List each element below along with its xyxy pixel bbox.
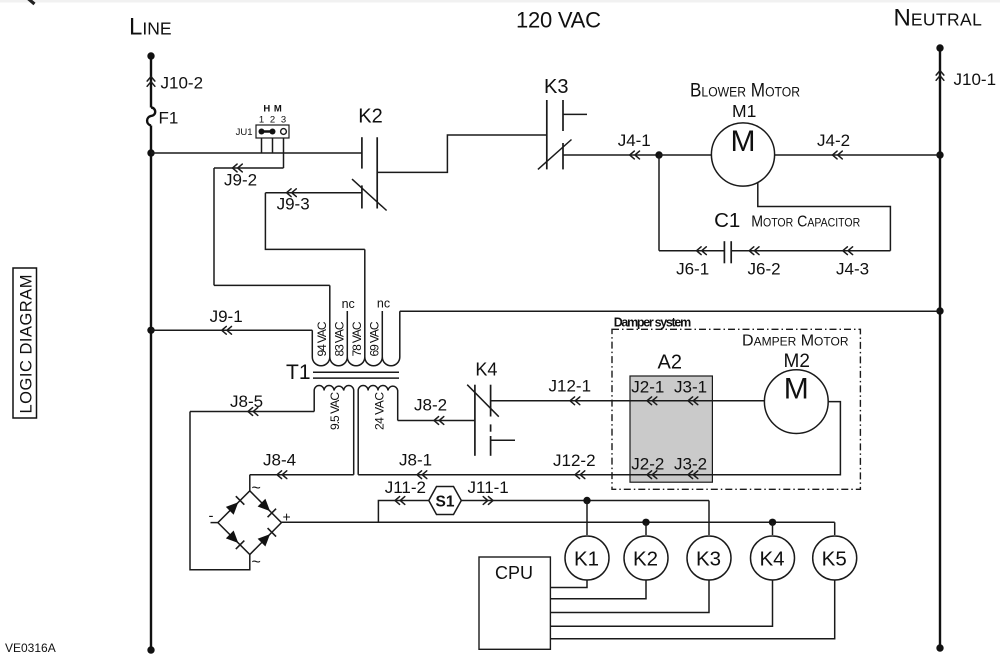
transformer T1 secondary 9.5 VAC (314, 386, 354, 475)
svg-text:J4-2: J4-2 (817, 131, 850, 150)
svg-text:J4-3: J4-3 (836, 260, 869, 279)
svg-text:K3: K3 (696, 548, 721, 571)
svg-text:J8-4: J8-4 (263, 451, 296, 470)
wire K1 to CPU (550, 580, 587, 588)
wire K3 to J4-1 (563, 154, 659, 156)
connector J4-3 (843, 247, 853, 255)
terminal board A2 fill (630, 376, 712, 482)
svg-text:J12-2: J12-2 (553, 451, 596, 470)
wire K4 to CPU (550, 580, 772, 626)
connector J12-2 (575, 471, 585, 479)
wire J4-1 to capacitor (658, 155, 660, 251)
relay coil K4 (751, 536, 795, 580)
svg-text:J3-1: J3-1 (674, 378, 707, 397)
svg-text:K3: K3 (544, 76, 568, 98)
wire J9-2 (214, 167, 284, 169)
svg-text:24 VAC: 24 VAC (373, 392, 387, 430)
svg-text:1: 1 (259, 115, 264, 126)
svg-text:BLOWER MOTOR: BLOWER MOTOR (690, 81, 800, 102)
wire to motor (659, 154, 712, 156)
connector J10-1 (936, 71, 944, 81)
wire J12-2 to M2 (630, 402, 840, 475)
svg-text:J8-5: J8-5 (230, 392, 263, 411)
wire J9-3 (265, 192, 362, 194)
svg-text:J9-3: J9-3 (277, 195, 310, 214)
JU1 pin drops (261, 138, 263, 153)
connector J6-2 (749, 247, 759, 255)
wire line bus to K2 (151, 152, 362, 154)
connector J2-1 (647, 397, 657, 405)
damper system box (612, 329, 860, 489)
relay coil K5 (813, 536, 857, 580)
connector J11-1 (483, 497, 493, 505)
svg-text:9.5 VAC: 9.5 VAC (328, 392, 342, 430)
wire K2 to CPU (550, 580, 646, 599)
svg-text:VE0316A: VE0316A (5, 641, 56, 655)
svg-text:120 VAC: 120 VAC (516, 7, 601, 32)
svg-text:J11-1: J11-1 (468, 478, 509, 497)
svg-text:J11-2: J11-2 (385, 478, 426, 497)
svg-text:69 VAC: 69 VAC (368, 321, 382, 356)
wire S1 to relays (461, 500, 709, 502)
svg-text:J2-2: J2-2 (631, 454, 664, 473)
svg-text:J10-1: J10-1 (954, 70, 997, 89)
svg-text:78 VAC: 78 VAC (350, 321, 364, 356)
svg-text:H: H (263, 104, 270, 115)
wire dc bus (+) (281, 521, 834, 523)
svg-text:CPU: CPU (495, 563, 533, 583)
svg-text:2: 2 (270, 115, 275, 126)
connector J2-2 (647, 471, 657, 479)
relay coil K2 (624, 536, 668, 580)
svg-text:C1: C1 (714, 209, 740, 232)
svg-text:J10-2: J10-2 (161, 74, 204, 93)
svg-text:A2: A2 (658, 351, 682, 373)
svg-text:J8-1: J8-1 (399, 451, 432, 470)
svg-text:J8-2: J8-2 (414, 396, 447, 415)
svg-text:3: 3 (281, 115, 286, 126)
connector J10-2 (147, 77, 155, 87)
svg-text:K2: K2 (633, 548, 658, 571)
wire primary to neutral bus (400, 310, 940, 312)
line bus (left) (150, 56, 152, 108)
wire J8-1 (358, 474, 630, 476)
connector J3-1 (688, 397, 698, 405)
svg-text:NEUTRAL: NEUTRAL (894, 4, 983, 31)
relay coil K1 (565, 536, 609, 580)
svg-text:T1: T1 (286, 361, 311, 384)
switch S1 (429, 487, 462, 515)
svg-text:83 VAC: 83 VAC (333, 321, 347, 356)
svg-text:K2: K2 (358, 106, 382, 128)
svg-text:J3-2: J3-2 (674, 454, 707, 473)
svg-text:~: ~ (252, 480, 261, 497)
page corner artifact (28, 0, 35, 4)
wire K2 to K3 (377, 135, 547, 172)
neutral bus (right) (939, 48, 941, 648)
svg-text:LINE: LINE (129, 14, 172, 41)
relay coil K3 (687, 536, 731, 580)
svg-text:M: M (274, 104, 282, 115)
svg-text:S1: S1 (436, 493, 455, 510)
svg-text:J4-1: J4-1 (618, 131, 651, 150)
wire J4-2 (775, 154, 940, 156)
wire K3 to CPU (550, 580, 709, 613)
node J4-1 (655, 151, 662, 158)
fuse F1 (147, 108, 155, 126)
svg-text:K1: K1 (574, 548, 599, 571)
svg-text:K4: K4 (759, 548, 784, 571)
logic diagram title box (13, 268, 37, 418)
wire J9-1 (151, 329, 312, 331)
node K4 feed (769, 519, 776, 526)
svg-text:DAMPER MOTOR: DAMPER MOTOR (742, 333, 849, 350)
wire J8-2 (398, 420, 475, 422)
node K2 feed (642, 519, 649, 526)
connector J12-1 (570, 397, 580, 405)
svg-text:M: M (731, 125, 756, 158)
CPU box (479, 557, 550, 649)
connector J3-2 (688, 471, 698, 479)
wire J8-5 (190, 411, 314, 413)
svg-text:nc: nc (377, 297, 390, 311)
svg-text:~: ~ (252, 554, 261, 571)
svg-text:J9-1: J9-1 (210, 307, 243, 326)
transformer T1 core (313, 371, 399, 373)
svg-text:J6-1: J6-1 (676, 260, 709, 279)
node K1 feed (583, 497, 590, 504)
svg-text:M: M (784, 373, 809, 406)
wire motor to capacitor (758, 182, 891, 251)
svg-text:F1: F1 (159, 109, 179, 128)
wire J8-4 (250, 474, 354, 476)
svg-text:M2: M2 (784, 351, 810, 372)
svg-text:JU1: JU1 (236, 127, 253, 138)
transformer T1 secondary 24 VAC (358, 386, 398, 475)
svg-text:nc: nc (342, 297, 355, 311)
svg-text:K5: K5 (822, 548, 847, 571)
svg-text:LOGIC DIAGRAM: LOGIC DIAGRAM (18, 275, 36, 414)
svg-text:J2-1: J2-1 (631, 378, 664, 397)
svg-text:J12-1: J12-1 (549, 377, 592, 396)
wire riser to S1 (378, 501, 428, 523)
svg-text:J9-2: J9-2 (224, 170, 257, 189)
connector J11-2 (395, 497, 405, 505)
jumper block JU1 (256, 125, 289, 138)
connector J6-1 (697, 247, 707, 255)
wire K5 to CPU (550, 580, 834, 639)
svg-text:M1: M1 (732, 101, 756, 121)
svg-text:J6-2: J6-2 (748, 260, 781, 279)
bridge rectifier (218, 491, 282, 555)
svg-text:94 VAC: 94 VAC (315, 321, 329, 356)
svg-text:Damper system: Damper system (614, 316, 692, 330)
wire K4 to damper motor (491, 400, 765, 402)
svg-text:K4: K4 (475, 360, 497, 380)
connector J4-1 (630, 151, 640, 159)
